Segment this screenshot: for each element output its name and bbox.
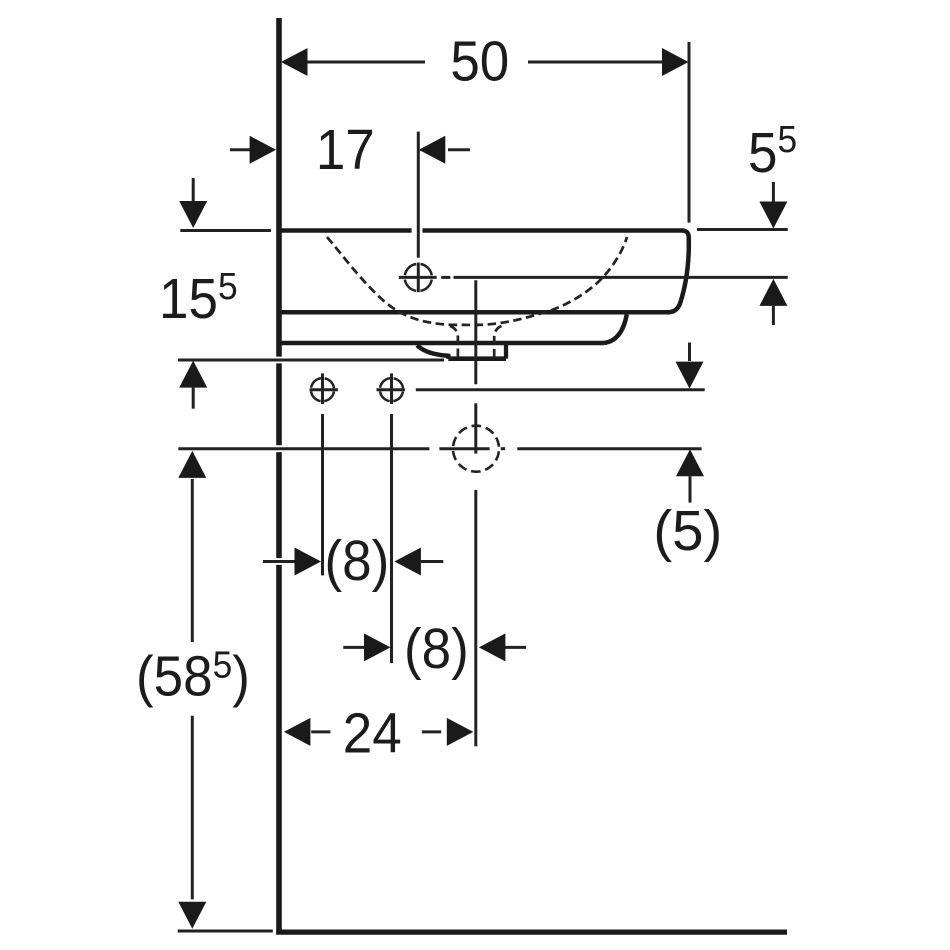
dim 17 arrow right: [419, 136, 446, 164]
svg-text:155: 155: [159, 265, 238, 331]
svg-text:(8): (8): [325, 528, 390, 592]
faucet hole vertical centerline: [417, 132, 420, 258]
dim 50 arrow left: [281, 48, 308, 76]
siphon pod left curve: [417, 345, 448, 359]
svg-text:55: 55: [748, 118, 797, 185]
left mounting hole extension line: [321, 414, 324, 575]
ledge-to-rim curve: [604, 315, 627, 344]
faucet hole dashed circle: [405, 264, 432, 291]
basin bottom extension line left: [178, 359, 444, 362]
basin rim bottom line: [281, 310, 670, 315]
dim 50 extension line: [688, 42, 691, 223]
dim (58.5) line: [191, 479, 194, 642]
siphon pod bottom: [448, 356, 506, 361]
dim (8) first arrow right: [394, 548, 421, 576]
dim 24 arrow right: [447, 718, 474, 746]
bowl dashed outline: [327, 237, 627, 325]
basin right edge: [668, 231, 689, 313]
dim 17 line: [230, 148, 251, 151]
dim (5) top arrow: [688, 343, 691, 362]
dim (8) second arrow left: [364, 633, 391, 661]
right mounting hole extension line: [390, 414, 393, 663]
floor extension line left: [178, 930, 273, 933]
basin under ledge line: [281, 341, 604, 346]
drain vertical centerline: [474, 280, 477, 384]
dim (8) second line: [343, 646, 365, 649]
dim 17 arrow left: [250, 136, 277, 164]
left mounting hole vertical tick: [321, 373, 324, 404]
dim 24 arrow left: [284, 718, 311, 746]
dim 15.5 top arrow: [192, 178, 195, 202]
dim (58.5) top arrow: [178, 451, 206, 478]
faucet hole horizontal centerline: [399, 276, 437, 279]
svg-text:(585): (585): [136, 643, 250, 708]
wall: [276, 18, 282, 935]
svg-text:(8): (8): [404, 616, 469, 680]
drain funnel left dashed: [450, 326, 458, 359]
dim (5) bottom arrow: [676, 449, 704, 476]
svg-text:24: 24: [343, 701, 402, 765]
basin top extension line left: [180, 229, 271, 232]
svg-text:(5): (5): [653, 500, 722, 563]
drain dashed circle: [453, 426, 499, 472]
dim 24 line: [311, 730, 330, 733]
dim (58.5) bottom arrow: [178, 902, 206, 929]
dim 50 arrow right: [662, 48, 689, 76]
right mounting hole vertical tick: [390, 373, 393, 404]
dim (8) second arrow right: [479, 633, 506, 661]
floor line: [276, 929, 787, 934]
dim 5.5 top arrow: [772, 182, 775, 202]
drain horizontal centerline: [178, 447, 429, 450]
right mounting hole circle: [380, 378, 403, 401]
dim 15.5 bottom arrow: [179, 361, 207, 388]
svg-text:50: 50: [450, 29, 509, 93]
dim (8) first arrow left: [295, 548, 322, 576]
left mounting hole circle: [311, 378, 334, 401]
dim 5.5 bottom arrow: [759, 279, 787, 306]
dim 50 line: [307, 61, 425, 64]
siphon pod right edge: [504, 343, 508, 359]
dim (8) first line: [263, 560, 296, 563]
basin top line: [281, 228, 682, 233]
basin top extension line right: [697, 228, 788, 231]
svg-text:17: 17: [316, 117, 375, 181]
drain funnel right dashed: [494, 326, 501, 359]
mounting holes line: [310, 388, 338, 391]
